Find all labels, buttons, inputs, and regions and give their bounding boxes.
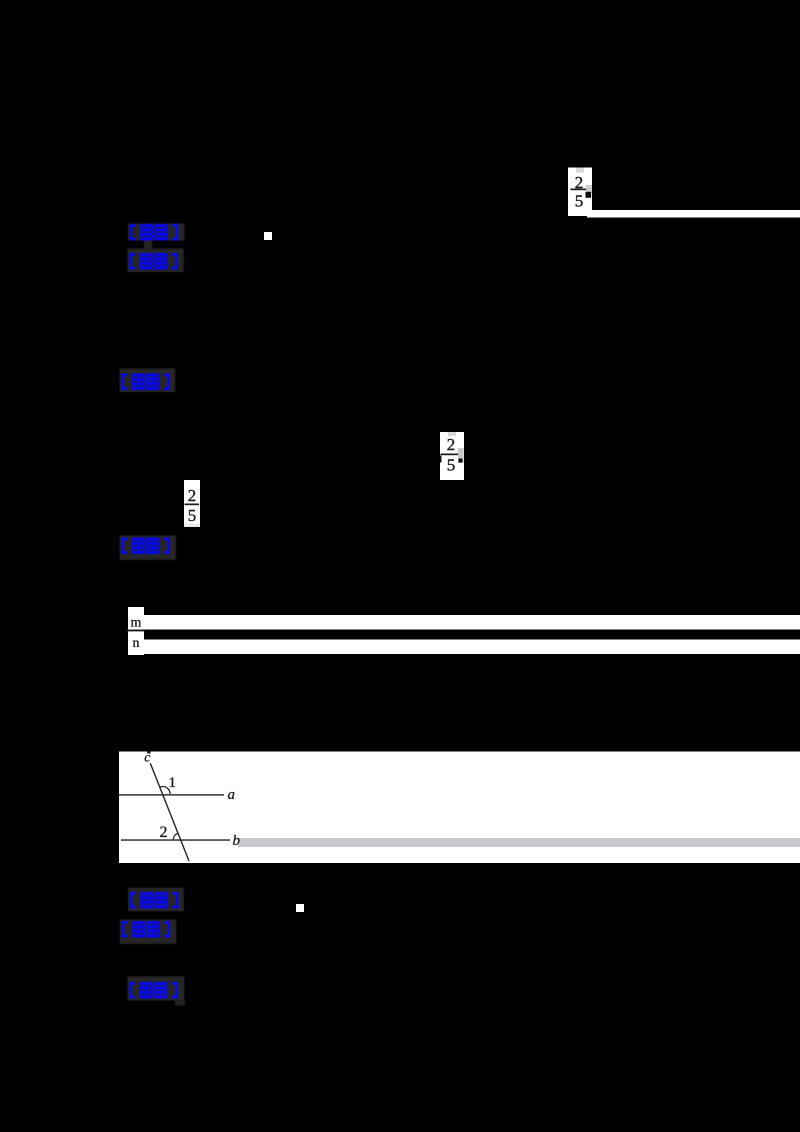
blue label 2 [fenxi]: [127, 248, 183, 272]
figure: gray highlight strip: [238, 838, 800, 847]
svg-text:5: 5: [188, 506, 197, 525]
figure: angle 2 arc: [173, 833, 177, 840]
blue label 6 [fenxi] q2: [120, 919, 176, 943]
fraction m/n white box: [126, 607, 145, 655]
long white strip 1: [144, 615, 800, 630]
blue label 7 [jieda] q2: [128, 976, 186, 1005]
svg-text:n: n: [133, 636, 140, 651]
blue label 1 [kaodian]: [128, 224, 185, 249]
long white strip 2: [144, 640, 800, 655]
fraction 2/5 (solution middle) white box: [440, 432, 464, 480]
blue label 3 [jieda]: [120, 368, 176, 392]
figure: white background: [119, 752, 800, 864]
fraction 2/5 (solution lower) white box: [184, 480, 200, 527]
figure: line a: [119, 794, 224, 796]
blue label 5 [kaodian] q2: [128, 888, 184, 912]
svg-text:2: 2: [188, 486, 197, 505]
figure: angle 1 arc: [160, 787, 170, 794]
svg-text:2: 2: [160, 824, 168, 841]
blue label 4 [dianping]: [120, 536, 176, 560]
svg-text:2: 2: [447, 435, 456, 454]
svg-text:1: 1: [169, 775, 177, 791]
svg-text:b: b: [233, 833, 241, 849]
figure: transversal c: [150, 763, 189, 861]
svg-text:m: m: [131, 616, 142, 631]
svg-text:5: 5: [447, 456, 456, 475]
svg-text:5: 5: [575, 192, 584, 211]
svg-text:c: c: [144, 751, 151, 766]
fraction 2/5 (question 1, top right) white box: [568, 168, 592, 217]
white strip top right: [587, 210, 800, 218]
svg-text:a: a: [228, 787, 236, 803]
white square 2: [296, 904, 304, 912]
white square 1: [264, 232, 272, 240]
figure: line b: [121, 839, 230, 841]
